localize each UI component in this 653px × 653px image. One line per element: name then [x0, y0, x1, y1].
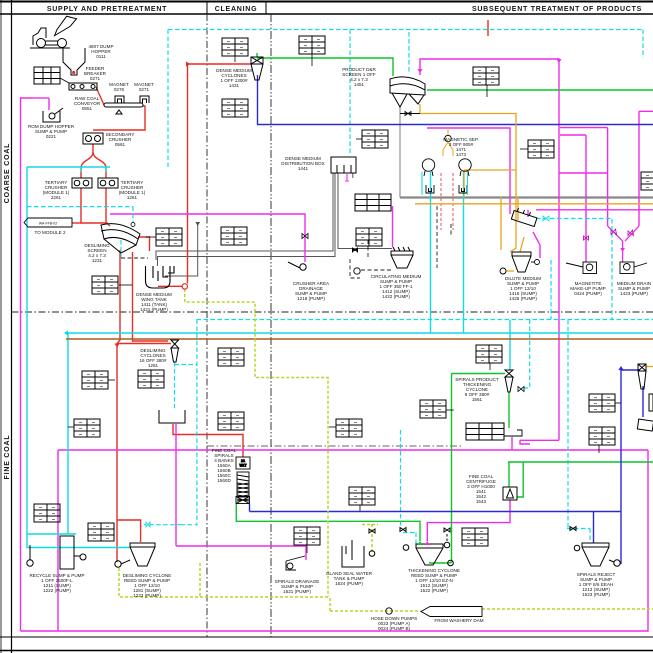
recycle sump tank — [27, 536, 86, 569]
wire magenta desliming to drainage — [110, 214, 306, 560]
svg-text:0424 (PUMP): 0424 (PUMP) — [574, 291, 602, 296]
table T19 — [476, 345, 502, 370]
wire orange — [415, 104, 653, 367]
svg-text:1621 (PUMP): 1621 (PUMP) — [283, 589, 311, 594]
rom dump hopper sump — [43, 108, 63, 122]
table T8a — [355, 194, 391, 211]
magnetic separator — [422, 135, 471, 193]
table T23 — [462, 528, 488, 546]
svg-text:WKT: WKT — [239, 464, 246, 468]
table T15 — [68, 419, 100, 437]
wire green top — [257, 53, 653, 90]
dense medium wing tank — [146, 266, 175, 288]
svg-text:1523 (PUMP): 1523 (PUMP) — [582, 592, 610, 597]
table T26 — [34, 504, 60, 522]
svg-text:1423 (PUMP): 1423 (PUMP) — [620, 291, 648, 296]
svg-text:0271: 0271 — [90, 76, 101, 81]
feeder breaker — [69, 83, 97, 90]
table T11 dm cyclone — [222, 99, 248, 117]
wire black dashed misc — [121, 206, 451, 278]
thickening cyclone feed sump funnel — [416, 528, 453, 566]
svg-text:1281: 1281 — [148, 363, 159, 368]
desliming cyclones — [171, 340, 179, 362]
wire red feeder to conveyor — [72, 87, 145, 223]
svg-text:0551: 0551 — [82, 106, 93, 111]
valve near spirals product cyclone — [518, 387, 524, 392]
spirals drainage pump — [286, 556, 305, 570]
table T4 — [473, 67, 499, 97]
svg-text:TO MODULE 2: TO MODULE 2 — [34, 230, 66, 235]
svg-text:1431: 1431 — [229, 83, 240, 88]
pump circle wing tank 1421 — [182, 284, 187, 289]
svg-text:0561: 0561 — [115, 142, 126, 147]
wire red dashed under separator — [441, 173, 453, 230]
table T10 — [221, 227, 247, 245]
wire magenta Y splits — [608, 226, 639, 262]
svg-text:CLEANING: CLEANING — [215, 6, 258, 13]
svg-text:SUPPLY AND PRETREATMENT: SUPPLY AND PRETREATMENT — [47, 6, 167, 13]
table T14 — [138, 370, 164, 388]
svg-text:1426 (PUMP): 1426 (PUMP) — [509, 296, 537, 301]
dense medium distribution box — [331, 157, 356, 173]
svg-text:1522 (PUMP): 1522 (PUMP) — [420, 588, 448, 593]
wire blue — [250, 75, 653, 564]
svg-text:1624 (PUMP): 1624 (PUMP) — [335, 581, 363, 586]
tertiary crusher left — [72, 178, 92, 188]
spirals product thickening cyclone — [505, 370, 513, 392]
svg-text:1231: 1231 — [92, 258, 103, 263]
crusher area drainage pump — [288, 262, 306, 270]
table T9 — [92, 276, 132, 294]
product d+r screen — [390, 77, 425, 116]
2A WKT box — [236, 457, 250, 469]
circulating medium sump funnel — [391, 247, 413, 268]
arrow cyan left — [64, 330, 68, 335]
svg-text:1218 (PUMP): 1218 (PUMP) — [297, 296, 325, 301]
section divider dash-dot x=207 — [206, 14, 208, 637]
svg-text:SUBSEQUENT TREATMENT OF PRODUC: SUBSEQUENT TREATMENT OF PRODUCTS — [472, 6, 642, 13]
desliming cyclone sump box — [159, 410, 185, 423]
circulating medium fan — [352, 247, 358, 253]
fine coal spirals coil — [236, 472, 250, 504]
svg-text:1451: 1451 — [354, 82, 365, 87]
fine coal centrifuge — [503, 487, 517, 500]
magnetite make-up pump — [566, 262, 597, 274]
wire red screen feed and dense medium circuit — [106, 20, 488, 562]
svg-text:1543: 1543 — [476, 499, 487, 504]
right lower screen box — [637, 419, 653, 431]
table T20 — [589, 394, 621, 412]
valves on Y splits — [611, 229, 634, 236]
table T5 — [520, 140, 554, 158]
horizontal section divider y=312 — [12, 311, 653, 313]
svg-text:1223 (PUMP): 1223 (PUMP) — [133, 593, 161, 598]
pump dilute 1426 — [500, 268, 506, 274]
table T16 — [218, 348, 244, 366]
magenta arrow into dist box — [345, 173, 349, 181]
svg-text:1261: 1261 — [127, 195, 138, 200]
svg-text:FROM WASHERY DAM: FROM WASHERY DAM — [434, 618, 483, 623]
wire yellow-green dashed — [119, 289, 653, 611]
gland seal water tank — [342, 528, 409, 568]
table T13 — [82, 371, 115, 389]
flag WA-FFB-02 — [24, 218, 72, 227]
svg-text:1560D: 1560D — [217, 478, 231, 483]
wire magenta left long loop — [21, 98, 649, 631]
gray main medium line y=197 — [400, 196, 653, 198]
medium drain pump — [620, 262, 647, 274]
table T24 — [349, 487, 375, 511]
wire cyan dashed — [27, 30, 653, 545]
svg-text:0271: 0271 — [139, 87, 150, 92]
pump bracket spirals product — [504, 428, 522, 436]
svg-text:WA-FFB-02: WA-FFB-02 — [39, 222, 57, 226]
svg-text:0024 (PUMP B): 0024 (PUMP B) — [378, 626, 411, 631]
dilute medium sump funnel — [512, 252, 531, 272]
svg-text:0221: 0221 — [46, 134, 57, 139]
table T21 — [589, 427, 615, 453]
gray pipes distribution box to wing tank — [156, 173, 392, 276]
table T7 — [146, 228, 182, 246]
svg-text:1441: 1441 — [298, 166, 309, 171]
svg-text:1561: 1561 — [472, 397, 483, 402]
table T30 — [356, 130, 388, 148]
table T17 — [218, 412, 244, 430]
desliming screen — [101, 224, 140, 253]
table T31 — [420, 400, 454, 418]
pump circulating 1422 — [354, 268, 360, 274]
table T6 right edge — [641, 172, 653, 190]
cyan feed circle — [131, 223, 135, 227]
arrows magenta — [417, 59, 561, 73]
arrows red — [114, 61, 190, 347]
table T22 — [294, 527, 320, 553]
wire green bottom — [236, 374, 653, 564]
right small cyclone top — [638, 364, 646, 389]
secondary crusher — [83, 133, 103, 144]
table T27 — [88, 523, 114, 541]
tertiary crusher right — [98, 178, 118, 188]
svg-text:1222 (PUMP): 1222 (PUMP) — [43, 588, 71, 593]
table T3 — [299, 36, 325, 66]
table T2 — [222, 38, 248, 62]
svg-text:1422 (PUMP): 1422 (PUMP) — [382, 294, 410, 299]
truck — [30, 16, 77, 48]
svg-text:FINE COAL: FINE COAL — [4, 435, 11, 480]
wire cyan solid left — [27, 167, 653, 548]
svg-text:1473: 1473 — [456, 152, 467, 157]
magnet 0276 — [115, 96, 124, 103]
hose down pump circle — [386, 608, 392, 614]
dump hopper — [63, 48, 85, 75]
valve Z on 586 — [584, 236, 589, 240]
svg-text:COARSE COAL: COARSE COAL — [4, 143, 11, 204]
svg-text:2261: 2261 — [51, 195, 62, 200]
dense medium cyclone — [251, 57, 263, 80]
table T28 — [649, 394, 653, 411]
svg-text:0276: 0276 — [114, 87, 125, 92]
spirals reject sump funnel — [570, 527, 620, 567]
table T8 — [356, 228, 382, 246]
table T1 feeder — [34, 67, 69, 84]
dilute medium screen — [511, 208, 537, 227]
section divider dash-dot-dot x=271 — [270, 14, 272, 637]
raw coal conveyor — [104, 103, 143, 114]
pump gauge right of funnel — [531, 260, 540, 265]
valve on magenta 1218 line — [302, 234, 308, 239]
desliming cyclone feed funnel — [115, 543, 155, 567]
svg-text:0111: 0111 — [96, 54, 106, 59]
table T18 — [329, 419, 362, 437]
wire magenta product screen and right side — [393, 59, 653, 541]
table T25 — [466, 423, 504, 440]
from washery dam flag — [421, 607, 482, 617]
wire brown — [66, 338, 653, 340]
magnet 0271 — [140, 96, 149, 103]
svg-text:1421 (PUMP): 1421 (PUMP) — [140, 307, 168, 312]
